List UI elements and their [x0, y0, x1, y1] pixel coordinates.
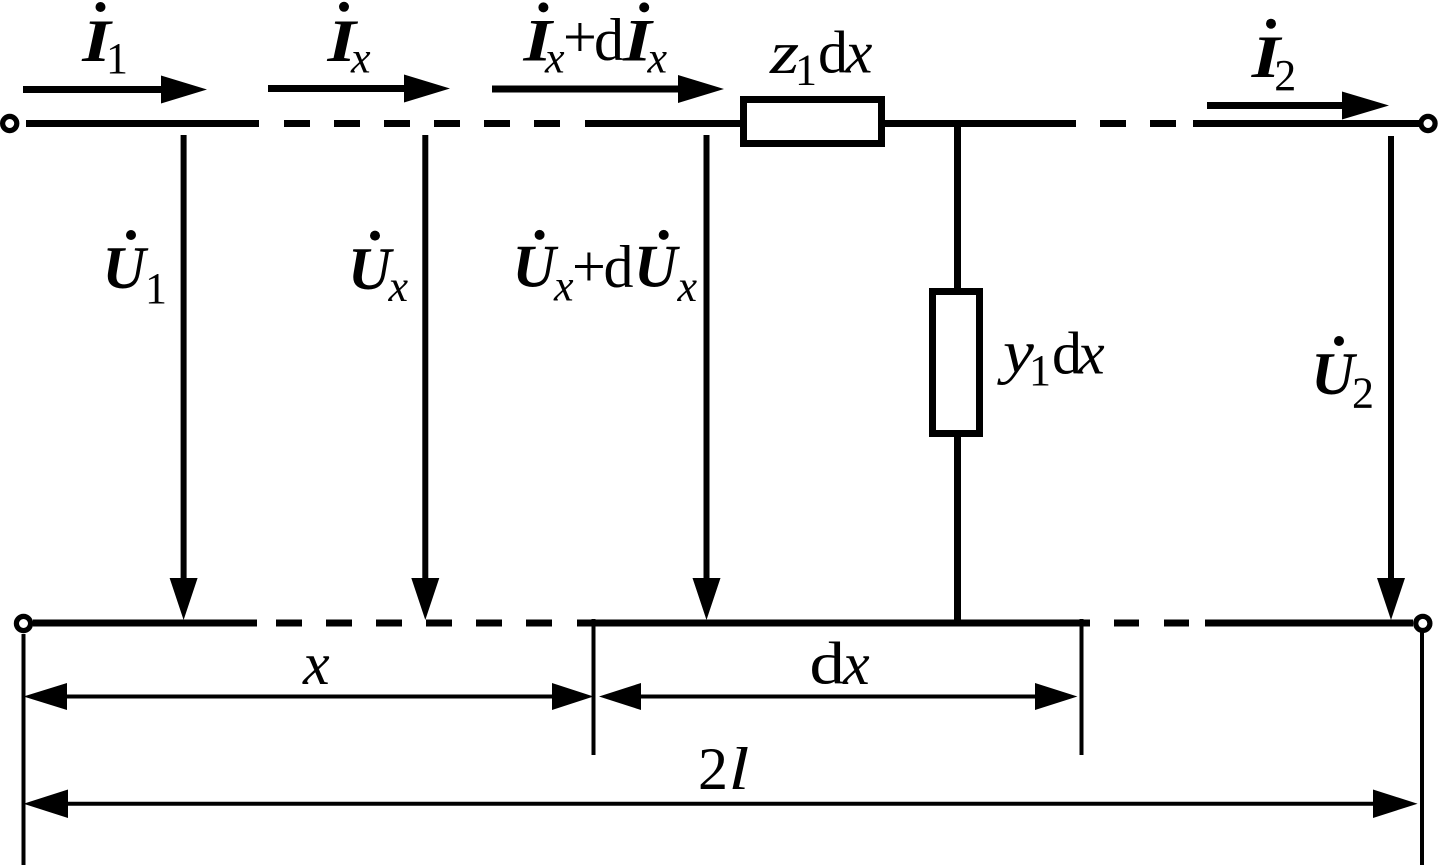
svg-text:x: x	[544, 34, 565, 83]
terminal (bottom-right port)	[1416, 616, 1430, 630]
wire top conductor right solid segment	[1193, 120, 1419, 127]
extension line at dx boundary	[1080, 619, 1084, 755]
svg-text:x: x	[677, 262, 698, 311]
wire top conductor right of resistor to junction	[885, 120, 1076, 127]
svg-text:x: x	[350, 34, 371, 83]
dimension x (arrowed line)	[24, 683, 594, 710]
svg-text:1: 1	[795, 46, 817, 95]
voltage arrow U2	[1377, 136, 1405, 620]
svg-text:U: U	[513, 234, 559, 300]
resistor z1dx (series impedance box)	[744, 100, 882, 144]
svg-text:U: U	[1311, 341, 1357, 407]
current arrow I2	[1207, 92, 1389, 120]
svg-text:x: x	[842, 631, 870, 697]
label Ix+dIx	[522, 2, 667, 82]
svg-text:1: 1	[106, 34, 128, 83]
svg-text:U: U	[634, 234, 680, 300]
wire top conductor mid solid segment into resistor	[585, 120, 743, 127]
svg-text:d: d	[810, 631, 845, 697]
voltage arrow U1	[170, 135, 198, 620]
svg-text:x: x	[1077, 321, 1105, 387]
label y1dx	[997, 319, 1105, 395]
label U1	[103, 230, 168, 313]
wire bottom dashes (right)	[1114, 620, 1139, 627]
label Ux	[348, 231, 409, 311]
svg-text:+: +	[563, 4, 597, 70]
svg-text:+: +	[572, 234, 606, 300]
label 2l (dimension)	[698, 735, 749, 802]
svg-text:x: x	[302, 631, 330, 697]
wire top dashes (right)	[1100, 120, 1126, 127]
wire shunt branch lower (y1dx box to bottom conductor)	[954, 433, 961, 623]
svg-text:d: d	[604, 234, 634, 300]
dimension 2l (arrowed line)	[24, 790, 1418, 819]
terminal (top-right port)	[1421, 116, 1435, 130]
terminal (top-left port)	[3, 116, 17, 130]
wire bottom conductor right solid segment	[1205, 620, 1413, 627]
svg-text:U: U	[348, 236, 394, 302]
label U2	[1311, 336, 1374, 417]
label Ix	[326, 2, 371, 83]
wire top conductor left solid segment	[26, 120, 259, 127]
current arrow Ix	[268, 75, 450, 103]
current arrow Ix+dIx	[492, 75, 724, 103]
svg-text:x: x	[647, 34, 668, 83]
wire bottom conductor mid solid segment	[577, 620, 1090, 627]
svg-text:d: d	[818, 20, 848, 86]
svg-text:1: 1	[145, 264, 167, 313]
extension line right	[1420, 632, 1424, 865]
dimension dx (arrowed line)	[599, 683, 1077, 710]
label I1	[81, 2, 128, 83]
voltage arrow Ux	[411, 135, 439, 620]
svg-text:x: x	[553, 262, 574, 311]
svg-text:l: l	[729, 735, 750, 802]
svg-text:2: 2	[698, 736, 728, 802]
terminal (bottom-left port)	[16, 616, 30, 630]
svg-text:U: U	[103, 235, 149, 301]
wire shunt branch upper (junction to y1dx box)	[954, 124, 961, 293]
wire bottom conductor dashed section (left)	[276, 620, 552, 627]
svg-text:2: 2	[1352, 368, 1374, 417]
extension line at x boundary	[592, 619, 596, 755]
svg-text:1: 1	[1029, 346, 1051, 395]
wire bottom conductor left solid segment	[33, 620, 257, 627]
label Ux+dUx	[513, 230, 698, 311]
voltage arrow Ux+dUx	[693, 135, 721, 620]
svg-text:d: d	[594, 7, 624, 73]
label z1dx	[769, 19, 873, 94]
svg-text:2: 2	[1274, 51, 1296, 100]
svg-text:x: x	[845, 20, 873, 86]
label dx (dimension)	[810, 631, 871, 697]
label I2	[1251, 19, 1297, 100]
resistor y1dx (shunt admittance box)	[933, 292, 980, 434]
current arrow I1	[23, 76, 207, 104]
wire top conductor dashed section (left)	[284, 120, 560, 127]
svg-text:x: x	[388, 262, 409, 311]
extension line left	[22, 634, 26, 865]
